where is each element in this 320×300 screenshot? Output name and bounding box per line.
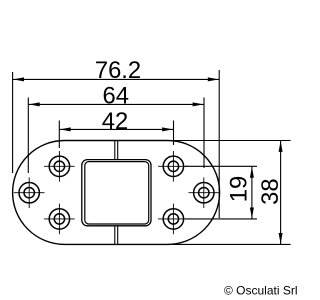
dim 42 arrow right	[162, 127, 173, 131]
dim 42 extension line left	[58, 121, 60, 149]
dim 76.2 extension line left	[12, 72, 14, 173]
knuckle outer square	[82, 160, 151, 226]
hole E bottom-right	[158, 204, 189, 235]
dim 76.2 line	[13, 78, 220, 80]
hole C bottom-left	[44, 204, 75, 235]
svg-text:42: 42	[102, 108, 128, 135]
dim 76.2 arrow left	[13, 77, 24, 81]
svg-text:© Osculati Srl: © Osculati Srl	[224, 284, 298, 298]
dim 19 line	[251, 166, 253, 219]
dim 19 arrow top	[250, 167, 254, 178]
dim 42 line	[59, 128, 173, 130]
svg-text:76.2: 76.2	[95, 57, 141, 84]
dim 64 arrow left	[29, 102, 40, 106]
svg-text:64: 64	[102, 82, 128, 109]
joint line bottom right	[117, 226, 119, 245]
dim 64 extension line left	[27, 98, 29, 174]
dim 38 arrow bottom	[279, 233, 283, 244]
svg-text:19: 19	[226, 176, 253, 202]
dim 64 arrow right	[193, 102, 204, 106]
dim 19 extension line bottom	[185, 218, 257, 220]
dim 19 extension line top	[185, 165, 257, 167]
dim 38 extension line bottom	[168, 243, 291, 245]
dim 64 line	[28, 103, 204, 105]
dim 42 extension line right	[173, 121, 175, 146]
dim 64 extension line right	[203, 98, 205, 169]
joint line top left	[114, 141, 116, 160]
hole F middle-right	[189, 177, 220, 208]
hole B top-left	[44, 151, 75, 182]
joint line top right	[117, 141, 119, 160]
dim 38 arrow top	[279, 141, 283, 152]
hinge body outline	[13, 141, 220, 245]
hole A middle-left	[14, 177, 45, 208]
dim 76.2 extension line right	[218, 70, 220, 218]
dim 38 extension line top	[168, 140, 291, 142]
svg-text:38: 38	[257, 178, 284, 204]
knuckle inner square	[85, 162, 149, 224]
dim 42 arrow left	[60, 127, 71, 131]
joint line bottom left	[114, 226, 116, 245]
dim 19 arrow bottom	[250, 208, 254, 219]
dim 38 line	[280, 141, 282, 245]
dim 76.2 arrow right	[208, 77, 219, 81]
hole D top-right	[158, 151, 189, 182]
